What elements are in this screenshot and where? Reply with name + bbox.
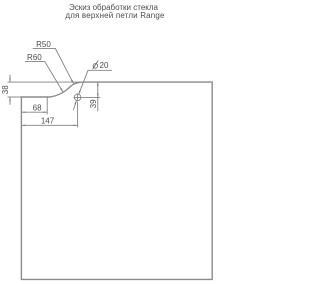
svg-text:68: 68 [33, 103, 42, 112]
leader tail segment below circle [73, 101, 76, 111]
label R60 underline + leader to arc [25, 61, 63, 92]
svg-text:20: 20 [100, 61, 109, 70]
extension line, bottom (cutout lower edge level) for dim 38 [8, 96, 22, 98]
dimension 38 vertical, arrows outside [9, 75, 11, 105]
label R50 underline + leader to arc [33, 48, 74, 83]
dimension 39 vertical line [97, 82, 99, 111]
extension line for dim 68 (vertical at curve start) [46, 97, 48, 115]
hole crosshair vertical [77, 93, 79, 101]
svg-text:39: 39 [89, 99, 98, 108]
arrowhead at circle bottom edge [74, 101, 76, 105]
svg-text:147: 147 [41, 116, 55, 125]
svg-text:R60: R60 [27, 53, 42, 62]
svg-text:R50: R50 [36, 40, 51, 49]
label Ø20 text: diameter symbol drawn, then 20 [93, 61, 109, 71]
hole crosshair horizontal + extension line for dim 39 [74, 96, 101, 98]
svg-text:38: 38 [1, 85, 10, 94]
hole Ø20 circle [74, 94, 81, 101]
label Ø20 underline + leader segment above circle [79, 70, 112, 94]
dimension 147 horizontal [21, 124, 77, 126]
glass panel outline with hinge cutout profile (R60 into R50) [21, 82, 212, 279]
dimension 68 horizontal [21, 111, 47, 113]
arrowhead at circle top edge [79, 90, 81, 94]
svg-text:для верхней петли Range: для верхней петли Range [65, 11, 165, 20]
extension line for dim 147 (vertical below hole center) [77, 102, 79, 128]
extension line, top (glass top edge level) for dim 38 [8, 81, 81, 83]
